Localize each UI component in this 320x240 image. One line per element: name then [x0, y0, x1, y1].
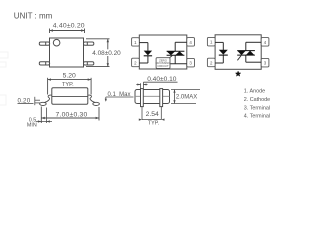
circuit 1 package box [139, 35, 187, 69]
pin 1 (anode) [207, 37, 215, 46]
triac T1 top rail [167, 50, 185, 52]
svg-text:TYP.: TYP. [148, 121, 159, 127]
pin 4 (main terminal) [187, 38, 195, 47]
pin 1 (anode) [132, 38, 140, 46]
dimension 2.0MAX (right of end view) [171, 90, 200, 104]
pin 3 (main terminal) [261, 58, 269, 67]
gull-wing lead left [44, 95, 52, 103]
svg-text:1. Anode: 1. Anode [244, 89, 265, 95]
lead tick top-left [45, 42, 47, 45]
lead top-right [84, 42, 94, 45]
LED D1 cathode bar [144, 55, 152, 57]
svg-text:2.0MAX: 2.0MAX [176, 94, 197, 100]
pin 2 (cathode) [132, 58, 140, 66]
pin 1 index circle [53, 39, 60, 46]
triac T1 triangle down [167, 51, 176, 55]
svg-text:7.00±0.30: 7.00±0.30 [56, 111, 88, 118]
dimension 4.08±0.20 (right of top view) [86, 39, 110, 67]
svg-text:UNIT : mm: UNIT : mm [14, 12, 53, 21]
pin 2 (cathode) [207, 58, 215, 66]
lead tick bottom-right [86, 62, 88, 65]
svg-text:5.20: 5.20 [63, 73, 76, 80]
dimension 7.00±0.30 (below side view) [41, 107, 99, 124]
svg-text:2.54: 2.54 [146, 111, 159, 118]
lead bottom-left [39, 62, 49, 65]
LED D2 cathode bar [219, 54, 228, 56]
package body (end view) [135, 90, 170, 104]
svg-text:2. Cathode: 2. Cathode [244, 97, 270, 103]
triac T2 bottom rail [237, 54, 255, 56]
svg-text:4.08±0.20: 4.08±0.20 [92, 50, 121, 57]
lead bar left [141, 89, 144, 107]
LED D2 triangle [219, 50, 228, 55]
svg-text:3. Terminal: 3. Terminal [244, 105, 270, 111]
package body (side view) [52, 88, 88, 104]
dimension 2.54 TYP (lead pitch) [142, 107, 161, 120]
triac T1 wires [170, 42, 187, 64]
triac T1 triangle up [175, 51, 184, 55]
lead bar right [160, 89, 163, 107]
triac T2 top rail [237, 50, 255, 52]
LED D2 wires [215, 42, 223, 63]
dimension 4.40±0.20 (top) [50, 29, 85, 34]
faint cropped shapes at left edge [0, 52, 8, 105]
triac T1 bottom rail [167, 54, 185, 56]
lead tick bottom-left [45, 62, 47, 65]
lead tick top-right [86, 42, 88, 45]
lead top-left [39, 42, 49, 45]
svg-text:4. Terminal: 4. Terminal [244, 114, 270, 120]
circuit 2 package box [215, 35, 261, 70]
svg-text:MIN: MIN [27, 122, 37, 128]
LED D1 wires [139, 43, 148, 63]
lead foot left [40, 102, 47, 105]
triac T2 gate stub [237, 56, 241, 61]
svg-text:TYP.: TYP. [62, 82, 74, 88]
triac T2 triangle up [246, 51, 255, 56]
body parting line [52, 95, 88, 97]
pin 4 (main terminal) [261, 38, 269, 47]
triac T2 wires [246, 42, 261, 62]
gull-wing lead right [88, 95, 96, 103]
parting line [135, 95, 170, 97]
zero-crossing circuit box [156, 58, 170, 69]
lead bottom-right [84, 62, 94, 65]
dimension 5.20 TYP (above side view) [48, 78, 92, 95]
package body (top view) [50, 38, 84, 67]
lead foot right [93, 102, 100, 105]
pin 3 (main terminal) [187, 58, 195, 67]
LED D1 triangle [144, 51, 152, 56]
svg-text:CIRCUIT: CIRCUIT [157, 64, 169, 68]
star footnote mark [235, 71, 240, 76]
svg-text:4.40±0.20: 4.40±0.20 [53, 23, 85, 30]
triac T2 triangle down [237, 51, 246, 56]
triac T1 gate line [170, 56, 173, 58]
